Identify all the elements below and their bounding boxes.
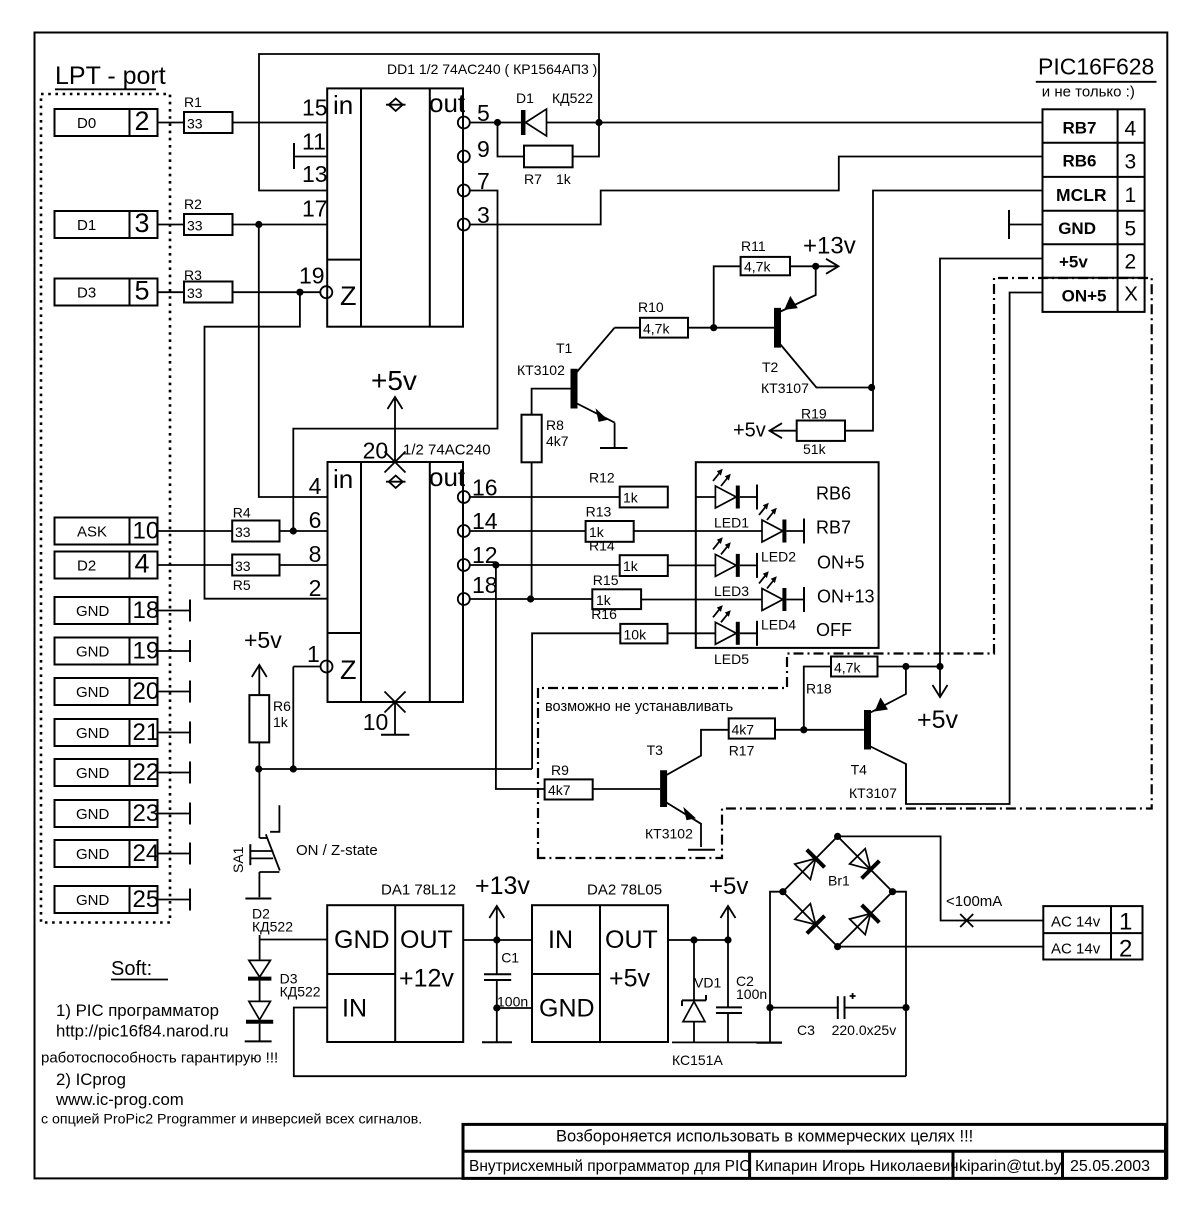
svg-text:DA2 78L05: DA2 78L05 bbox=[587, 882, 662, 899]
svg-text:1: 1 bbox=[1119, 909, 1132, 936]
svg-text:19: 19 bbox=[133, 638, 160, 665]
wire PIC ON+5 down bbox=[906, 293, 1043, 805]
svg-text:GND: GND bbox=[76, 806, 110, 823]
svg-text:4k7: 4k7 bbox=[546, 433, 569, 449]
svg-text:GND: GND bbox=[76, 725, 110, 742]
svg-text:1k: 1k bbox=[623, 490, 639, 506]
transistor T4 КТ3107 bbox=[849, 667, 906, 805]
bridge diode top-right bbox=[850, 849, 880, 879]
svg-text:<100mA: <100mA bbox=[946, 893, 1002, 910]
svg-text:LED3: LED3 bbox=[714, 583, 749, 599]
svg-text:SA1: SA1 bbox=[230, 846, 246, 873]
resistor R8 4k7 bbox=[522, 389, 571, 599]
svg-text:1k: 1k bbox=[273, 714, 289, 730]
svg-text:in: in bbox=[333, 464, 353, 494]
svg-text:OUT: OUT bbox=[605, 926, 658, 954]
wire DA2 OUT right bbox=[668, 936, 732, 943]
svg-text:25.05.2003: 25.05.2003 bbox=[1070, 1158, 1150, 1175]
wire R1 to pin15 bbox=[233, 122, 328, 124]
svg-text:работоспособность гарантирую !: работоспособность гарантирую !!! bbox=[41, 1050, 278, 1067]
svg-text:51k: 51k bbox=[803, 441, 827, 457]
pin 6 bbox=[309, 507, 322, 533]
svg-text:ON / Z-state: ON / Z-state bbox=[296, 842, 378, 859]
wire pin14 to R13 bbox=[470, 530, 586, 532]
svg-text:ON+13: ON+13 bbox=[817, 586, 875, 606]
svg-text:R4: R4 bbox=[233, 505, 251, 521]
pin 10 ground bbox=[363, 692, 410, 736]
svg-text:9: 9 bbox=[477, 136, 490, 162]
net label RB6 bbox=[816, 484, 851, 504]
svg-text:GND: GND bbox=[76, 892, 110, 909]
svg-text:D1: D1 bbox=[516, 90, 534, 106]
svg-text:T2: T2 bbox=[762, 359, 779, 375]
svg-text:C3: C3 bbox=[797, 1022, 815, 1038]
svg-text:10: 10 bbox=[363, 709, 389, 735]
svg-text:D2: D2 bbox=[77, 558, 96, 575]
svg-text:R1: R1 bbox=[184, 94, 202, 110]
soft item 1 bbox=[56, 1001, 219, 1020]
svg-text:КТ3107: КТ3107 bbox=[761, 380, 809, 396]
svg-text:1k: 1k bbox=[623, 558, 639, 574]
wire DA1 IN left bbox=[294, 1008, 906, 1077]
svg-text:100n: 100n bbox=[736, 986, 767, 1002]
out pin 14 bbox=[458, 508, 498, 537]
zener VD1 КС151А bbox=[672, 940, 723, 1068]
svg-text:8: 8 bbox=[309, 541, 322, 567]
svg-text:+5v: +5v bbox=[609, 965, 651, 993]
svg-text:LPT - port: LPT - port bbox=[55, 62, 166, 90]
out pin 3 bbox=[458, 202, 490, 231]
svg-text:IN: IN bbox=[342, 995, 367, 1023]
svg-text:Кипарин Игорь Николаевич: Кипарин Игорь Николаевич bbox=[755, 1158, 959, 1175]
regulator DA2 78L05 bbox=[532, 882, 668, 1043]
svg-text:21: 21 bbox=[133, 719, 160, 746]
svg-text:OFF: OFF bbox=[816, 620, 852, 640]
svg-text:33: 33 bbox=[235, 558, 251, 574]
svg-text:R9: R9 bbox=[551, 762, 569, 778]
svg-text:4: 4 bbox=[135, 549, 150, 579]
svg-text:23: 23 bbox=[133, 800, 160, 827]
svg-text:+5v: +5v bbox=[244, 627, 282, 653]
resistor R9 4k7 bbox=[545, 762, 660, 800]
svg-text:T4: T4 bbox=[851, 762, 868, 778]
svg-text:КТ3107: КТ3107 bbox=[849, 785, 897, 801]
pin 15 bbox=[302, 95, 328, 121]
svg-text:33: 33 bbox=[187, 285, 203, 301]
svg-text:http://pic16f84.narod.ru: http://pic16f84.narod.ru bbox=[56, 1022, 229, 1041]
svg-text:КТ3102: КТ3102 bbox=[517, 362, 565, 378]
capacitor C2 100n bbox=[716, 940, 767, 1042]
svg-text:R6: R6 bbox=[273, 698, 291, 714]
svg-text:GND: GND bbox=[76, 644, 110, 661]
net label RB7 bbox=[816, 517, 851, 537]
svg-text:kiparin@tut.by: kiparin@tut.by bbox=[959, 1158, 1062, 1175]
resistor R19 51k bbox=[733, 388, 873, 457]
svg-text:R17: R17 bbox=[729, 743, 755, 759]
svg-text:D1: D1 bbox=[77, 217, 96, 234]
svg-text:X: X bbox=[1124, 283, 1138, 306]
connector AC 14v bbox=[1043, 906, 1142, 962]
wire ASK to R4 bbox=[158, 530, 233, 532]
bridge diode bottom-right bbox=[850, 905, 880, 935]
resistor R11 4,7k bbox=[714, 238, 816, 328]
connector GND 21 bbox=[55, 719, 191, 746]
wire PIC +5v down bbox=[940, 259, 1043, 667]
svg-text:R2: R2 bbox=[184, 196, 202, 212]
svg-text:+5v: +5v bbox=[917, 706, 959, 734]
svg-text:MCLR: MCLR bbox=[1056, 185, 1107, 205]
svg-text:КД522: КД522 bbox=[280, 983, 321, 999]
LED4 bbox=[641, 571, 804, 632]
connector pin ASK 10 bbox=[55, 518, 160, 545]
pin 20 +5v bbox=[363, 365, 417, 473]
svg-text:КТ3102: КТ3102 bbox=[645, 825, 693, 841]
ground T1 emitter bbox=[600, 447, 628, 449]
out pin 9 bbox=[458, 136, 490, 163]
svg-text:RB6: RB6 bbox=[1063, 152, 1097, 171]
svg-text:19: 19 bbox=[299, 263, 325, 289]
resistor R17 4k7 bbox=[729, 718, 864, 758]
svg-text:3: 3 bbox=[1125, 150, 1137, 173]
transistor T1 КТ3102 bbox=[517, 328, 615, 448]
resistor R2 33 bbox=[184, 196, 233, 235]
svg-text:LED5: LED5 bbox=[714, 651, 749, 667]
wire MCLR bbox=[873, 191, 1043, 389]
buffer DD1.1 74AC240 body bbox=[327, 88, 466, 327]
svg-text:1/2 74AC240: 1/2 74AC240 bbox=[403, 442, 491, 459]
svg-text:20: 20 bbox=[133, 678, 160, 705]
connector GND 22 bbox=[55, 759, 191, 786]
svg-text:4: 4 bbox=[309, 473, 322, 499]
resistor R1 33 bbox=[184, 94, 233, 133]
node R3 junction bbox=[296, 289, 303, 296]
svg-text:R7: R7 bbox=[524, 171, 542, 187]
wire R5 to pin8 bbox=[280, 564, 328, 566]
capacitor C3 220.0x25v bbox=[770, 993, 910, 1038]
pin 13 bbox=[302, 161, 328, 187]
soft url 1 bbox=[56, 1022, 229, 1041]
guarantee note bbox=[41, 1050, 278, 1067]
svg-text:10k: 10k bbox=[624, 627, 648, 643]
pin 2 bbox=[309, 575, 322, 601]
svg-text:25: 25 bbox=[133, 886, 160, 913]
Soft heading bbox=[111, 958, 168, 980]
svg-text:T1: T1 bbox=[556, 340, 573, 356]
svg-text:LED2: LED2 bbox=[761, 549, 796, 565]
pin 1 bbox=[307, 641, 320, 667]
svg-text:ON+5: ON+5 bbox=[1062, 287, 1107, 306]
connector pin D0 2 bbox=[55, 106, 158, 136]
svg-text:17: 17 bbox=[302, 196, 328, 222]
wire pin12 net down to R9 bbox=[496, 565, 545, 789]
LED2 bbox=[634, 503, 804, 565]
DD1.2 slew symbol bbox=[386, 476, 406, 488]
svg-text:Внутрисхемный программатор для: Внутрисхемный программатор для PIC bbox=[469, 1158, 751, 1175]
connector GND 20 bbox=[55, 678, 191, 705]
svg-text:GND: GND bbox=[76, 603, 110, 620]
node R2 junction bbox=[255, 221, 262, 228]
svg-text:RB7: RB7 bbox=[1063, 119, 1097, 138]
LPT connector dotted outline bbox=[41, 94, 170, 923]
svg-text:2: 2 bbox=[309, 575, 322, 601]
wire D3 to R3 bbox=[158, 291, 185, 293]
svg-text:Возбороняется использовать в к: Возбороняется использовать в коммерчески… bbox=[556, 1128, 973, 1146]
svg-text:4k7: 4k7 bbox=[548, 782, 571, 798]
svg-text:LED1: LED1 bbox=[714, 515, 749, 531]
ground bus power bbox=[672, 1041, 782, 1043]
ground T3 emitter bbox=[688, 849, 715, 851]
svg-text:20: 20 bbox=[363, 438, 389, 464]
PIC connector table bbox=[1043, 109, 1145, 312]
svg-text:ON+5: ON+5 bbox=[817, 552, 865, 572]
DD1.2 label bbox=[403, 442, 491, 459]
bridge diode top-left bbox=[795, 850, 825, 880]
svg-text:13: 13 bbox=[302, 161, 328, 187]
svg-text:18: 18 bbox=[133, 597, 160, 624]
pin 8 bbox=[309, 541, 322, 567]
svg-text:Br1: Br1 bbox=[828, 873, 850, 889]
svg-text:R19: R19 bbox=[801, 406, 827, 422]
wire D2 to R5 bbox=[158, 564, 233, 566]
svg-text:3: 3 bbox=[135, 208, 150, 238]
svg-text:R11: R11 bbox=[741, 238, 766, 254]
DD1 label bbox=[387, 61, 597, 77]
svg-text:КС151А: КС151А bbox=[672, 1052, 723, 1068]
pin 19 Z bubble bbox=[320, 286, 332, 298]
wire feedback loop to pin13 bbox=[259, 54, 599, 191]
node T2 collector MCLR bbox=[868, 384, 875, 391]
fuse <100mA bbox=[946, 893, 1002, 927]
svg-text:4,7k: 4,7k bbox=[834, 660, 861, 676]
svg-text:24: 24 bbox=[133, 840, 160, 867]
pin 11 stub bbox=[294, 129, 327, 170]
PIC GND stub bbox=[1009, 210, 1043, 239]
PIC pin +5v 2 bbox=[1059, 251, 1136, 274]
PIC pin RB6 3 bbox=[1063, 150, 1137, 173]
wire bridge left down bbox=[766, 892, 783, 1043]
svg-text:1) PIC программатор: 1) PIC программатор bbox=[56, 1001, 219, 1020]
svg-text:GND: GND bbox=[76, 846, 110, 863]
svg-text:T3: T3 bbox=[647, 742, 664, 758]
svg-text:4,7k: 4,7k bbox=[643, 321, 670, 337]
wire pin5 to D1 node bbox=[470, 122, 522, 124]
svg-text:GND: GND bbox=[76, 684, 110, 701]
wire R16 to Z control net bbox=[532, 633, 620, 769]
node ASK junction bbox=[290, 527, 297, 534]
connector GND 24 bbox=[55, 840, 191, 867]
out pin 18 bbox=[458, 572, 498, 605]
out pin 5 bbox=[458, 100, 490, 129]
svg-text:+13v: +13v bbox=[803, 233, 856, 260]
bridge Br1 bbox=[779, 833, 896, 950]
wire DA2 GND left bbox=[497, 1007, 532, 1009]
svg-text:11: 11 bbox=[302, 129, 326, 155]
svg-text:IN: IN bbox=[548, 926, 573, 954]
svg-text:33: 33 bbox=[187, 116, 203, 132]
resistor R14 1k bbox=[589, 538, 668, 576]
svg-text:возможно не устанавливать: возможно не устанавливать bbox=[545, 699, 733, 715]
LPT-port heading bbox=[55, 62, 166, 90]
transistor T3 КТ3102 bbox=[645, 730, 729, 847]
resistor R4 33 bbox=[232, 505, 279, 542]
resistor R5 33 bbox=[232, 555, 279, 594]
svg-text:C1: C1 bbox=[501, 950, 519, 966]
resistor R13 1k bbox=[586, 503, 634, 541]
connector GND 25 bbox=[55, 886, 191, 913]
svg-text:GND: GND bbox=[1058, 219, 1096, 238]
buffer DD1.2 74AC240 body bbox=[328, 462, 466, 702]
svg-text:6: 6 bbox=[309, 507, 322, 533]
svg-text:15: 15 bbox=[302, 95, 328, 121]
wire R4 to pin6 bbox=[280, 530, 328, 532]
bridge diode bottom-left bbox=[795, 904, 825, 934]
svg-text:R15: R15 bbox=[593, 572, 619, 588]
connector pin D2 4 bbox=[55, 549, 158, 579]
resistor R7 1k bbox=[498, 123, 600, 188]
LED5 bbox=[668, 605, 758, 667]
wire R2 to pin17 bbox=[233, 224, 328, 226]
wire DA1 OUT to DA2 IN bbox=[463, 936, 532, 943]
svg-text:ASK: ASK bbox=[77, 524, 107, 541]
out pin 12 bbox=[458, 542, 498, 571]
+13v arrow bbox=[803, 233, 856, 274]
transistor T2 КТ3107 bbox=[761, 266, 872, 396]
switch SA1 ON/Z-state bbox=[230, 769, 378, 899]
wire bridge right down to bottom bus bbox=[893, 892, 907, 1076]
soft url 2 bbox=[55, 1090, 184, 1109]
svg-text:+5v: +5v bbox=[1059, 253, 1088, 272]
svg-text:in: in bbox=[333, 90, 353, 120]
svg-text:22: 22 bbox=[133, 759, 160, 786]
wire RB7 row bbox=[599, 122, 1043, 124]
svg-text:GND: GND bbox=[539, 995, 595, 1023]
svg-text:КД522: КД522 bbox=[552, 90, 593, 106]
svg-text:R12: R12 bbox=[589, 469, 615, 485]
svg-text:D3: D3 bbox=[77, 285, 96, 302]
PIC pin RB7 4 bbox=[1063, 117, 1137, 140]
svg-text:5: 5 bbox=[135, 276, 150, 306]
wire D1 to R2 bbox=[158, 224, 185, 226]
wire bridge bottom to AC2 bbox=[838, 946, 1044, 948]
LED3 bbox=[668, 537, 757, 599]
svg-text:4k7: 4k7 bbox=[732, 722, 755, 738]
connector GND 18 bbox=[55, 597, 191, 624]
connector pin D1 3 bbox=[55, 208, 158, 238]
svg-text:и не только :): и не только :) bbox=[1042, 84, 1135, 101]
PIC pin MCLR 1 bbox=[1056, 184, 1136, 207]
svg-text:PIC16F628: PIC16F628 bbox=[1038, 54, 1154, 80]
svg-text:4,7k: 4,7k bbox=[744, 259, 771, 275]
propic note bbox=[41, 1112, 422, 1128]
wire Z pin to control net bbox=[293, 667, 320, 770]
PIC pin ON+5 X bbox=[1062, 283, 1139, 306]
resistor R18 4,7k bbox=[804, 657, 944, 730]
svg-text:Z: Z bbox=[340, 655, 357, 685]
wire D2 net to DA1 GND bbox=[260, 939, 328, 941]
wire pin18 to R15 bbox=[470, 595, 593, 602]
wire pin16 to R12 bbox=[470, 496, 620, 498]
svg-text:+5v: +5v bbox=[709, 873, 748, 900]
svg-text:AC 14v: AC 14v bbox=[1051, 941, 1101, 958]
wire pin3 to RB6 bbox=[470, 157, 1043, 225]
+5v down arrow bbox=[917, 667, 959, 735]
diode D2 КД522 bbox=[248, 906, 293, 979]
out pin 16 bbox=[458, 475, 498, 503]
svg-text:R18: R18 bbox=[806, 681, 832, 697]
svg-text:RB6: RB6 bbox=[816, 484, 851, 504]
regulator DA1 78L12 bbox=[327, 882, 463, 1043]
svg-text:33: 33 bbox=[187, 218, 203, 234]
svg-text:+12v: +12v bbox=[399, 965, 454, 993]
wire D3 net to pin2 bbox=[205, 292, 328, 599]
svg-text:Soft:: Soft: bbox=[111, 958, 152, 980]
svg-text:R14: R14 bbox=[589, 538, 615, 554]
net label ON+13 bbox=[817, 586, 875, 606]
connector pin D3 5 bbox=[55, 276, 158, 306]
svg-text:R5: R5 bbox=[233, 577, 251, 593]
soft item 2 bbox=[56, 1070, 126, 1089]
svg-text:DD1 1/2 74AC240 ( КР1564АП3: DD1 1/2 74AC240 ( КР1564АП3 ) bbox=[387, 61, 597, 77]
resistor R15 1k bbox=[592, 572, 641, 609]
svg-text:VD1: VD1 bbox=[694, 975, 721, 991]
svg-text:+5v: +5v bbox=[371, 365, 417, 396]
svg-text:out: out bbox=[429, 462, 466, 492]
diode D1 КД522 bbox=[516, 90, 599, 136]
wire D0 to R1 bbox=[158, 122, 185, 124]
wire pin7 readback to ASK bbox=[293, 191, 497, 532]
wire bridge top to fuse bbox=[838, 836, 1044, 920]
svg-text:2: 2 bbox=[135, 106, 150, 136]
PIC16F628 heading bbox=[1036, 54, 1157, 101]
svg-text:2: 2 bbox=[1119, 936, 1132, 963]
svg-text:GND: GND bbox=[76, 765, 110, 782]
svg-text:D0: D0 bbox=[77, 115, 96, 132]
svg-text:+5v: +5v bbox=[733, 420, 766, 442]
svg-text:out: out bbox=[429, 88, 466, 118]
svg-text:R10: R10 bbox=[638, 299, 664, 315]
resistor R6 1k bbox=[249, 695, 291, 769]
+5v arrow DA2 bbox=[709, 873, 748, 940]
svg-text:1: 1 bbox=[307, 641, 320, 667]
svg-text:1k: 1k bbox=[556, 171, 572, 187]
+13v arrow bbox=[475, 872, 530, 940]
dash-dot optional region outline bbox=[538, 278, 1152, 858]
svg-text:R13: R13 bbox=[586, 503, 612, 519]
ground C1 bbox=[482, 1041, 512, 1043]
pin 17 bbox=[302, 196, 328, 222]
pin 19 bbox=[299, 263, 325, 289]
capacitor C1 100n bbox=[484, 940, 528, 1042]
resistor R12 1k bbox=[589, 469, 668, 507]
node D1 out bbox=[595, 119, 602, 126]
connector GND 19 bbox=[55, 638, 191, 665]
pin 1 Z bubble bbox=[321, 661, 333, 673]
wire R3 to pin19 bbox=[233, 291, 321, 293]
svg-text:www.ic-prog.com: www.ic-prog.com bbox=[55, 1090, 184, 1109]
svg-text:R16: R16 bbox=[591, 606, 617, 622]
svg-text:GND: GND bbox=[334, 926, 390, 954]
svg-text:RB7: RB7 bbox=[816, 517, 851, 537]
svg-text:220.0x25v: 220.0x25v bbox=[832, 1022, 897, 1038]
net label OFF bbox=[816, 620, 852, 640]
svg-text:18: 18 bbox=[472, 572, 498, 598]
svg-text:OUT: OUT bbox=[400, 926, 453, 954]
svg-text:5: 5 bbox=[1125, 217, 1137, 240]
out pin 7 bbox=[458, 168, 490, 197]
svg-text:1: 1 bbox=[1125, 184, 1137, 207]
connector GND 23 bbox=[55, 800, 191, 827]
svg-text:AC 14v: AC 14v bbox=[1051, 914, 1101, 931]
